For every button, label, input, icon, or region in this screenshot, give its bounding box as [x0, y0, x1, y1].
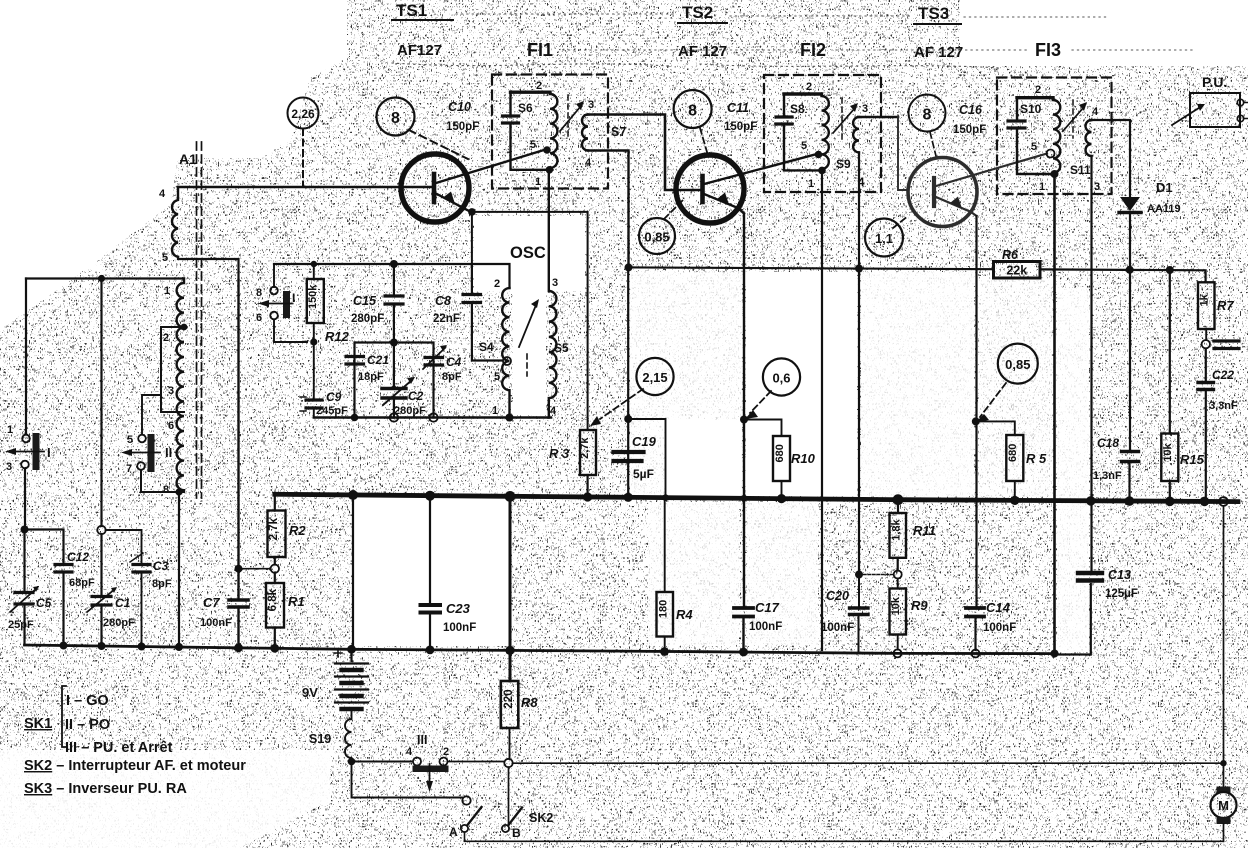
switch SK1 contacts 8/6	[258, 264, 307, 342]
svg-text:1: 1	[164, 285, 170, 297]
value C11 label	[724, 101, 757, 133]
svg-text:S4: S4	[479, 340, 494, 354]
svg-text:1: 1	[7, 424, 13, 436]
svg-text:280pF: 280pF	[351, 313, 384, 325]
svg-text:2: 2	[494, 278, 500, 290]
svg-text:AF 127: AF 127	[678, 43, 727, 60]
wire OSC box	[472, 212, 588, 430]
node I label	[47, 445, 51, 460]
value C17 label	[749, 600, 782, 633]
svg-text:2: 2	[443, 746, 449, 758]
node P.U. label	[1202, 74, 1227, 90]
svg-text:TS3: TS3	[918, 4, 949, 23]
circle callout 8 TS3	[909, 95, 946, 132]
wire lower rail	[25, 645, 1055, 654]
svg-text:S7: S7	[611, 125, 626, 139]
wire tap box pins 2-3	[161, 327, 184, 412]
pin 4 antenna	[159, 188, 166, 200]
FI2 tuning arrow	[833, 98, 858, 140]
value C10 label	[446, 100, 479, 133]
pin 8 coil	[163, 484, 169, 496]
svg-text:22nF: 22nF	[433, 313, 460, 325]
wire osc bottom rail y417.5	[314, 416, 551, 418]
junction open C1 node	[97, 526, 105, 534]
value C12 label	[67, 550, 95, 589]
node FI3 label	[1035, 40, 1061, 60]
junction battery bottom	[348, 758, 356, 766]
svg-text:R11: R11	[913, 523, 936, 538]
svg-text:5: 5	[127, 434, 133, 446]
legend bracket	[62, 686, 66, 747]
svg-text:3: 3	[6, 461, 12, 473]
wire TS3 underline	[914, 23, 961, 25]
svg-text:C4: C4	[446, 355, 462, 369]
capacitor C9	[300, 397, 322, 411]
pin 4 SK1-III	[406, 746, 413, 758]
svg-text:S10: S10	[1020, 102, 1042, 116]
capacitor C15	[385, 264, 403, 343]
svg-text:3: 3	[588, 99, 594, 111]
diode D1	[1119, 197, 1141, 501]
svg-text:C18: C18	[1097, 436, 1119, 450]
circle callout 2,26	[288, 98, 319, 129]
resistor R15	[1161, 270, 1178, 501]
wire C20 link	[859, 574, 894, 576]
svg-text:2,7k: 2,7k	[579, 437, 591, 459]
dashed FI2 box	[764, 75, 881, 192]
capacitor C20	[850, 578, 869, 652]
node II label	[165, 445, 172, 460]
svg-text:M: M	[1218, 798, 1229, 813]
inductor S10 with frame	[1017, 98, 1060, 174]
circle callout 8 TS1	[377, 98, 415, 136]
pin 4 S7	[585, 157, 592, 169]
junction D1 AGC	[1126, 266, 1134, 274]
svg-text:R1: R1	[288, 594, 305, 609]
svg-text:D1: D1	[1156, 180, 1173, 195]
svg-text:OSC: OSC	[510, 244, 546, 262]
capacitor C10	[503, 116, 519, 123]
node S4 label	[479, 340, 494, 354]
inductor S4	[502, 288, 509, 418]
svg-text:150k: 150k	[307, 284, 319, 309]
svg-text:C17: C17	[755, 600, 780, 615]
svg-text:R10: R10	[791, 451, 816, 466]
pin 1 S6	[535, 176, 541, 188]
svg-text:18pF: 18pF	[358, 371, 384, 383]
svg-text:C9: C9	[326, 390, 342, 404]
svg-text:4: 4	[550, 405, 557, 417]
svg-text:100nF: 100nF	[200, 617, 232, 629]
pin 4 S5	[550, 405, 557, 417]
svg-text:3: 3	[552, 277, 558, 289]
svg-text:0,85: 0,85	[1005, 357, 1030, 372]
svg-text:C19: C19	[632, 434, 657, 449]
pin 3 S11	[1094, 181, 1100, 193]
svg-text:I: I	[47, 445, 51, 460]
junction open bus right end	[1219, 497, 1228, 506]
pin 1 coil	[164, 285, 170, 297]
resistor R4	[657, 498, 674, 652]
node TS1 label	[396, 1, 427, 20]
capacitor C17	[734, 608, 753, 617]
svg-text:5µF: 5µF	[633, 467, 654, 481]
svg-text:III – PU. et Arrêt: III – PU. et Arrêt	[65, 740, 173, 756]
svg-text:180: 180	[658, 600, 670, 618]
legend SK3	[24, 781, 187, 797]
node R9 label	[911, 598, 928, 613]
svg-text:P.U.: P.U.	[1202, 74, 1227, 90]
svg-text:6: 6	[256, 312, 262, 324]
svg-text:C8: C8	[435, 294, 451, 308]
svg-text:C7: C7	[203, 595, 220, 610]
svg-text:2: 2	[163, 332, 169, 344]
svg-text:AF127: AF127	[397, 42, 442, 59]
wire dashed 8 pointer TS1	[409, 130, 468, 159]
svg-text:C12: C12	[67, 550, 89, 564]
svg-text:100nF: 100nF	[821, 622, 854, 634]
svg-text:C20: C20	[826, 589, 849, 603]
wire TS2 underline	[678, 22, 727, 24]
svg-text:6: 6	[168, 420, 174, 432]
wire S10 pin1 down to rail	[1053, 174, 1056, 654]
value C1 label	[103, 596, 135, 629]
capacitor C13	[1055, 573, 1103, 655]
pin 2 S6	[536, 80, 542, 92]
pin 7 SK1-II	[126, 463, 132, 475]
svg-text:680: 680	[774, 444, 786, 462]
svg-text:R2: R2	[289, 523, 306, 538]
svg-text:4: 4	[1092, 106, 1099, 118]
capacitor C22	[1198, 349, 1214, 502]
node S11 label	[1070, 163, 1091, 177]
svg-text:R8: R8	[521, 695, 538, 710]
wire TS1 underline	[392, 19, 453, 21]
svg-text:R9: R9	[911, 598, 928, 613]
svg-text:6,8k: 6,8k	[267, 588, 279, 611]
svg-text:5: 5	[801, 140, 807, 152]
svg-text:3: 3	[168, 385, 174, 397]
junction R15 AGC	[1166, 266, 1174, 274]
pin 5 S8	[801, 140, 807, 152]
node AF127 label TS1	[397, 42, 442, 59]
node R8 label	[521, 695, 538, 710]
junction coil pin2	[181, 324, 188, 331]
pin 3 S7	[588, 99, 594, 111]
inductor S19	[345, 711, 352, 762]
wire pin8 down to rail	[178, 492, 180, 646]
node OSC label	[510, 244, 546, 262]
svg-text:3: 3	[1094, 181, 1100, 193]
pin 2 S4	[494, 278, 500, 290]
wire dotted leaders top	[392, 14, 1195, 68]
pin 2 S10	[1035, 84, 1041, 96]
wire C21-C2 box	[355, 343, 434, 418]
junction open R1R2	[271, 565, 279, 573]
svg-text:FI2: FI2	[800, 40, 826, 60]
value C23 label	[443, 601, 476, 634]
transistor TS2	[676, 155, 815, 224]
svg-text:0,85: 0,85	[644, 230, 669, 245]
circle callout 0,6	[763, 358, 800, 395]
junction open R11-R9	[894, 571, 902, 579]
capacitor C5 variable	[10, 586, 39, 612]
capacitor C18	[1122, 452, 1139, 462]
svg-text:1k: 1k	[1199, 293, 1211, 306]
wire TS2 emitter column	[742, 214, 745, 652]
node R1 label	[288, 594, 305, 609]
capacitor C12	[55, 565, 72, 573]
junction C20 tap	[855, 571, 863, 579]
wire AGC line	[629, 267, 1206, 282]
junction S10 pin1	[1051, 170, 1059, 178]
junction R12 top	[311, 261, 317, 267]
dashed FI1 box	[492, 75, 608, 189]
pin 6 coil	[168, 420, 174, 432]
circle callout 8 TS2	[674, 90, 712, 128]
junction AGC start	[625, 263, 633, 271]
junction S9 AGC	[855, 265, 863, 273]
pin 5 S6	[530, 139, 536, 151]
svg-text:8: 8	[688, 103, 697, 120]
svg-text:R 3: R 3	[549, 446, 570, 461]
junction C19 tap	[624, 415, 632, 423]
svg-text:8: 8	[391, 110, 400, 127]
node A1 label	[179, 151, 197, 167]
junction S8 pin5	[815, 151, 823, 159]
node I wiper label	[292, 291, 295, 305]
svg-text:I: I	[292, 291, 295, 305]
junction S6 pin1	[546, 166, 554, 174]
svg-text:1: 1	[1039, 181, 1045, 193]
capacitor C14	[966, 608, 984, 617]
circle callout 2,15	[636, 358, 673, 395]
wire oscillator top rail y264	[274, 264, 510, 288]
pin 4 S11	[1092, 106, 1099, 118]
svg-text:R6: R6	[1002, 248, 1019, 262]
resistor R3	[579, 430, 596, 495]
inductor A1 coil	[172, 187, 178, 257]
pin 1 S8	[808, 178, 814, 190]
svg-text:R 5: R 5	[1026, 451, 1047, 466]
wire TS3 emitter column	[976, 216, 977, 650]
value C16 label	[953, 103, 986, 136]
pin 5 S4	[494, 371, 500, 383]
wire battery to SK2	[352, 762, 463, 798]
osc tuning arrow	[519, 299, 539, 376]
junction C7 / R-divider	[235, 565, 243, 573]
svg-text:FI3: FI3	[1035, 40, 1061, 60]
switch SK1-III	[352, 758, 505, 793]
pin 5 S10	[1031, 141, 1037, 153]
resistor R9	[890, 579, 907, 650]
FI1 tuning arrow	[560, 95, 584, 140]
resistor R7	[1198, 282, 1215, 340]
wire C7 column	[237, 280, 239, 646]
svg-text:TS2: TS2	[682, 3, 713, 22]
svg-text:C16: C16	[959, 103, 983, 117]
svg-text:220: 220	[503, 689, 515, 708]
node S6 label	[518, 101, 533, 115]
svg-text:5: 5	[530, 139, 536, 151]
node R15 label	[1180, 452, 1205, 467]
svg-text:100nF: 100nF	[443, 622, 476, 634]
svg-text:1,1: 1,1	[875, 231, 893, 246]
wire C1 column	[100, 279, 102, 646]
svg-text:280pF: 280pF	[103, 617, 135, 629]
switch SK1-I	[5, 279, 44, 530]
svg-text:I – GO: I – GO	[66, 693, 109, 709]
svg-text:1: 1	[492, 405, 498, 417]
motor M	[1211, 787, 1237, 842]
junction TS1 emitter OSC corner	[468, 208, 476, 216]
wire S8 pin1 down	[821, 170, 823, 650]
inductor S8 with frame	[784, 94, 829, 170]
pin 1 S10	[1039, 181, 1045, 193]
junction switch I bottom	[21, 526, 29, 534]
value C14 label	[983, 600, 1016, 634]
svg-text:C21: C21	[367, 353, 389, 367]
value C7 label	[200, 595, 232, 629]
svg-text:C23: C23	[446, 601, 471, 616]
svg-text:9V: 9V	[302, 685, 318, 700]
inductor S5	[549, 170, 557, 418]
node A label	[449, 825, 458, 839]
resistor R1	[266, 573, 284, 646]
inductor S7	[582, 115, 702, 268]
junction S4 pin1	[506, 414, 514, 422]
node S10 label	[1020, 102, 1042, 116]
junction box bottom left	[351, 414, 359, 422]
circle callout 0,85 TS3	[998, 344, 1038, 384]
node III label	[417, 733, 427, 747]
resistor R10	[744, 420, 790, 498]
wire main bus	[275, 494, 1238, 501]
junction open C2 bottom	[390, 413, 398, 421]
svg-text:8: 8	[256, 287, 262, 299]
node R2 label	[289, 523, 306, 538]
value C5 label	[8, 596, 52, 631]
svg-text:2: 2	[536, 80, 542, 92]
junction open SK2 top contact	[462, 796, 470, 804]
svg-text:1: 1	[808, 178, 814, 190]
svg-text:C15: C15	[353, 294, 377, 308]
node R3 label	[549, 446, 570, 461]
wire motor column	[1223, 506, 1225, 792]
capacitor output coupling right	[1214, 341, 1239, 349]
value C3 label	[152, 559, 172, 590]
resistor R8	[501, 496, 519, 759]
svg-text:245pF: 245pF	[316, 405, 348, 417]
svg-text:2: 2	[1035, 84, 1041, 96]
svg-text:C22: C22	[1212, 368, 1234, 382]
node R7 label	[1217, 298, 1234, 313]
junction open C14 rail	[972, 650, 980, 658]
capacitor C2 variable	[382, 343, 415, 418]
transistor TS1	[401, 150, 544, 222]
wire C9 column	[313, 342, 315, 418]
pin 5 SK1-II	[127, 434, 133, 446]
svg-text:A1: A1	[179, 151, 197, 167]
resistor R5	[976, 421, 1024, 500]
svg-text:100nF: 100nF	[749, 621, 782, 633]
junction S6 pin5	[543, 146, 551, 154]
wire bus stub column x353	[352, 495, 354, 649]
capacitor C1 variable	[87, 587, 117, 612]
value C9 label	[316, 390, 348, 417]
pin 8 contact	[256, 287, 262, 299]
node B label	[512, 826, 521, 840]
svg-text:SK2: SK2	[529, 811, 553, 825]
capacitor C11	[776, 117, 792, 124]
capacitor C8	[463, 264, 502, 361]
svg-text:S9: S9	[836, 157, 851, 171]
svg-text:3,3nF: 3,3nF	[1209, 400, 1238, 412]
svg-text:AF 127: AF 127	[914, 44, 963, 61]
legend SK1	[24, 693, 173, 756]
svg-text:2: 2	[806, 81, 812, 93]
node S19 label	[309, 732, 331, 746]
junction open R8 bottom	[504, 759, 512, 767]
resistor R11	[890, 500, 907, 571]
wire C3 branch	[106, 530, 142, 645]
svg-text:C10: C10	[448, 100, 471, 114]
svg-text:8: 8	[923, 107, 932, 124]
pin 3 SK1-I	[6, 461, 12, 473]
wire dashed 8 pointer TS2	[700, 128, 707, 152]
node R12 label	[325, 329, 350, 344]
svg-text:TS1: TS1	[396, 1, 427, 20]
svg-text:S6: S6	[518, 101, 533, 115]
dashed FI3 box	[997, 78, 1112, 195]
wire C7 to R1R2 node	[242, 568, 270, 570]
pin 3 coil	[168, 385, 174, 397]
pin 1 S4	[492, 405, 498, 417]
node S5 label	[554, 341, 569, 355]
pin 2 SK1-III	[443, 746, 449, 758]
svg-text:C14: C14	[986, 600, 1011, 615]
pin 3 S9	[862, 103, 868, 115]
junction top edge / pin1 column	[98, 275, 105, 282]
svg-text:1: 1	[535, 176, 541, 188]
svg-text:680: 680	[1007, 444, 1019, 462]
pin 4 S9	[858, 177, 865, 189]
svg-text:280pF: 280pF	[394, 405, 426, 417]
junction C15 bottom boxtop	[390, 339, 398, 347]
junction R10 tap	[740, 416, 748, 424]
FI3 tuning arrow	[1063, 100, 1087, 138]
inductor S9	[853, 117, 906, 575]
value C2 label	[394, 389, 426, 417]
svg-text:C13: C13	[1108, 568, 1131, 582]
svg-text:FI1: FI1	[527, 40, 553, 60]
svg-text:S19: S19	[309, 732, 331, 746]
junction S8 pin1	[818, 167, 826, 175]
wire dashed 0,6 pointer	[745, 391, 771, 419]
node AF127 label TS2	[678, 43, 727, 60]
svg-text:10k: 10k	[1162, 442, 1174, 461]
svg-text:II: II	[165, 445, 172, 460]
value C15 label	[351, 294, 384, 325]
resistor R2	[268, 495, 286, 565]
value C22 label	[1209, 368, 1238, 412]
svg-text:68pF: 68pF	[69, 577, 95, 589]
wire left group top edge	[26, 277, 184, 279]
svg-text:4: 4	[858, 177, 865, 189]
node R4 label	[676, 607, 693, 622]
svg-text:7: 7	[126, 463, 132, 475]
value C13 label	[1105, 568, 1138, 600]
